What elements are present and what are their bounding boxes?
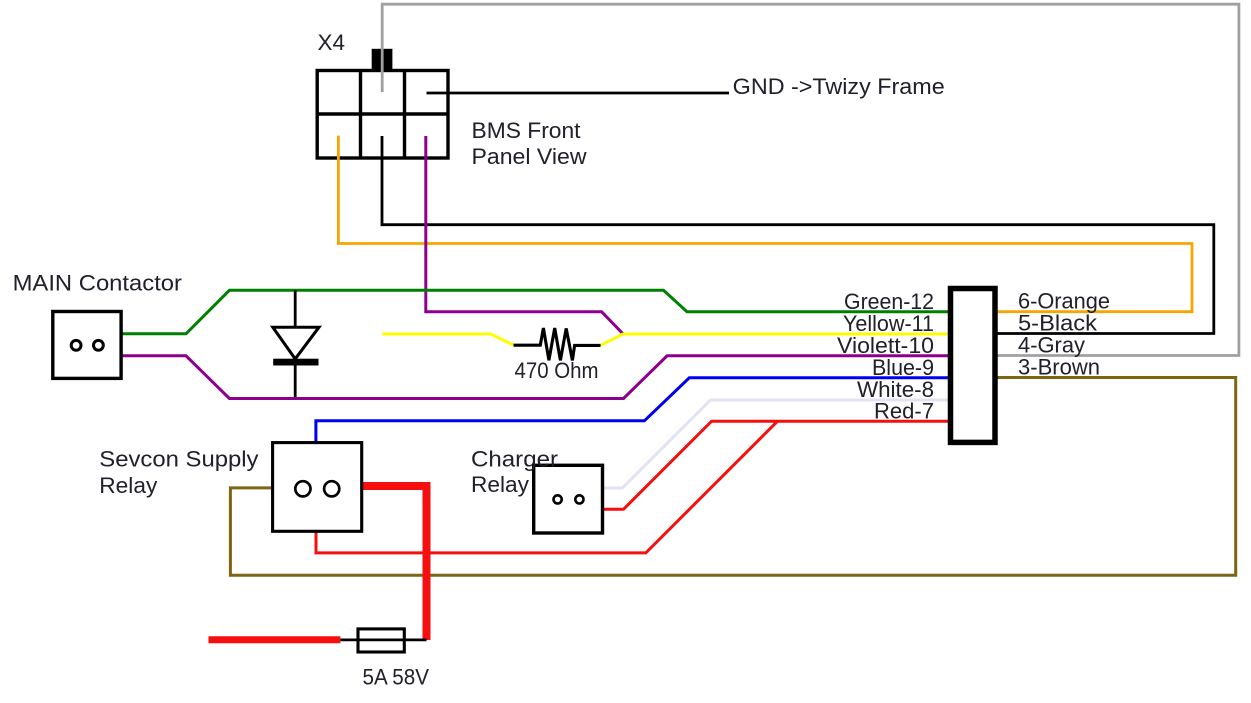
Charger relay box — [534, 465, 603, 533]
svg-text:GND ->Twizy Frame: GND ->Twizy Frame — [733, 74, 945, 99]
wire brown 3-Brown loop to Sevcon relay — [230, 378, 1235, 576]
wire white Charger relay to White-8 — [603, 400, 951, 488]
svg-text:5A 58V: 5A 58V — [363, 665, 430, 690]
wire red Charger relay to Red-7 — [603, 421, 951, 509]
Sevcon relay terminal left — [295, 481, 310, 496]
wire GND black to Twizy frame — [427, 92, 730, 95]
wire blue Sevcon relay to Blue-9 — [316, 378, 951, 443]
wire red Sevcon relay joining Red-7 — [316, 421, 778, 553]
svg-text:470 Ohm: 470 Ohm — [515, 358, 599, 383]
wire fuse lead — [340, 639, 426, 642]
svg-text:Sevcon Supply: Sevcon Supply — [99, 447, 258, 472]
Charger relay terminal right — [575, 495, 583, 503]
fuse F1 5A 58V — [358, 629, 404, 652]
svg-text:X4: X4 — [318, 30, 346, 55]
MAIN contactor box — [53, 312, 121, 379]
Sevcon supply relay box — [273, 443, 362, 532]
svg-text:3-Brown: 3-Brown — [1018, 355, 1100, 380]
wire purple MAIN contactor to Violett-10 — [121, 356, 951, 399]
MAIN contactor terminal right — [94, 340, 104, 350]
svg-text:Panel View: Panel View — [472, 144, 587, 169]
svg-text:Relay: Relay — [99, 473, 157, 498]
svg-text:Red-7: Red-7 — [874, 399, 934, 424]
connector X4 tab — [372, 49, 393, 72]
MAIN contactor terminal left — [71, 340, 81, 350]
wire yellow right segment to Yellow-11 — [601, 334, 951, 345]
svg-text:Relay: Relay — [471, 472, 529, 497]
wire orange pin to 6-Orange — [338, 136, 1192, 312]
wire thick red bottom left — [209, 636, 341, 643]
wire green MAIN contactor to Green-12 — [121, 290, 951, 334]
svg-text:MAIN Contactor: MAIN Contactor — [13, 271, 182, 296]
diode D1 cathode bar — [273, 359, 318, 366]
diode D1 triangle — [273, 327, 319, 359]
connector block X1 — [951, 289, 996, 443]
resistor 470 Ohm — [514, 328, 601, 360]
connector X4 body — [317, 71, 448, 159]
Charger relay terminal left — [554, 495, 562, 503]
diode vertical wire — [294, 290, 297, 398]
Sevcon relay terminal right — [324, 481, 339, 496]
svg-text:BMS Front: BMS Front — [472, 118, 581, 143]
wire black pin to 5-Black — [382, 136, 1214, 334]
wire violet BMS pin to yellow junction — [426, 136, 623, 334]
wire thick red Sevcon relay to fuse — [362, 486, 427, 640]
svg-text:Charger: Charger — [471, 446, 558, 471]
wire gray pin to 4-Gray — [382, 4, 1239, 355]
wire yellow left segment — [382, 334, 513, 345]
